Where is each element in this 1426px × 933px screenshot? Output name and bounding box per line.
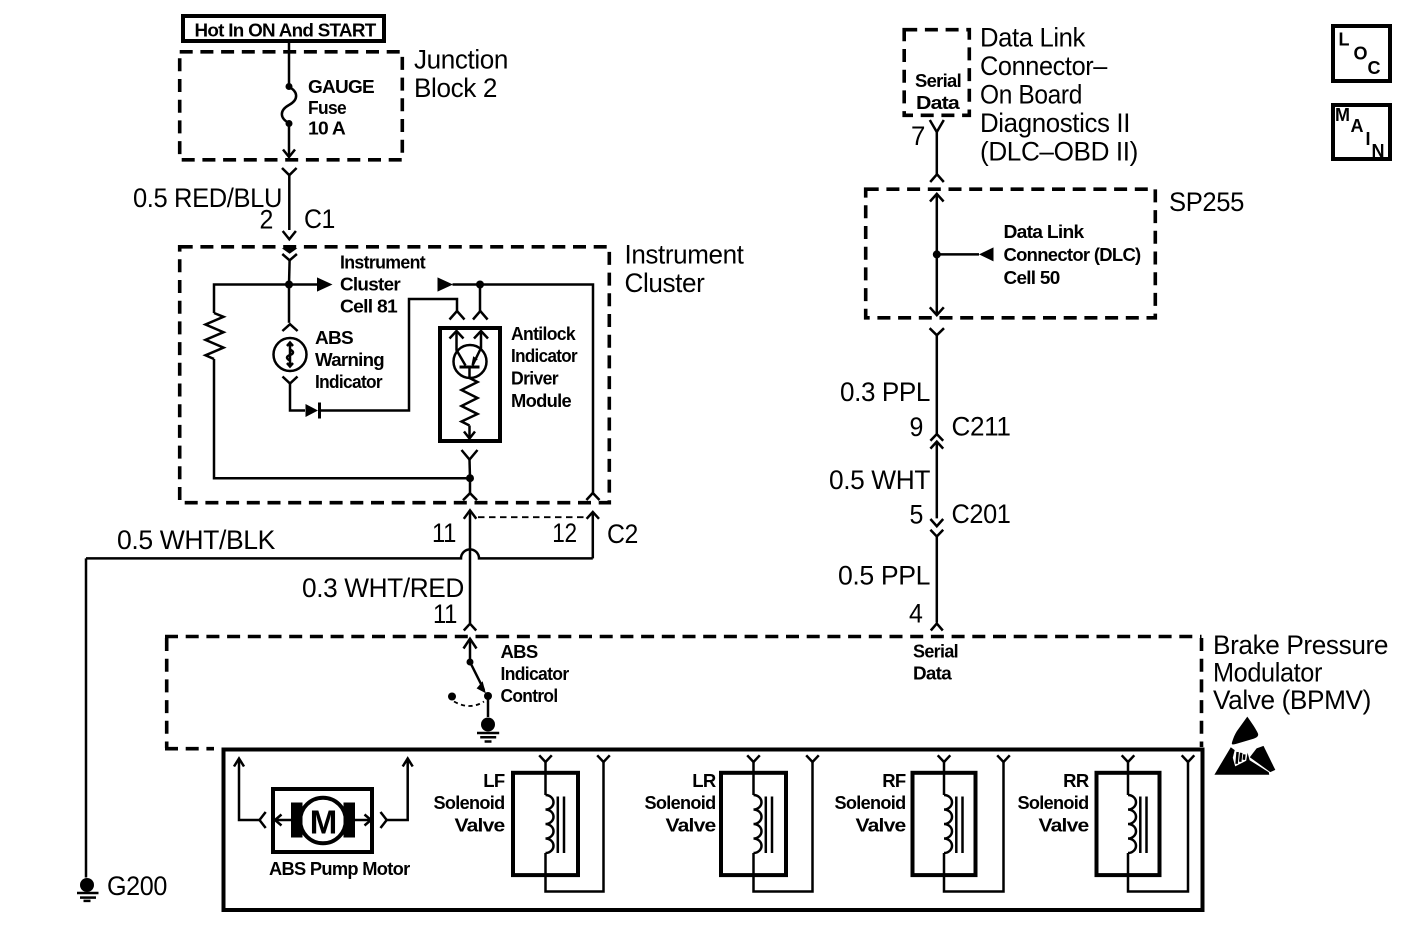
svg-text:Solenoid: Solenoid xyxy=(1018,792,1089,813)
wire C1 fork down to cluster (0.5 RED/BLU) xyxy=(283,175,296,239)
wire from hot box into junction block xyxy=(288,43,291,86)
svg-text:Control: Control xyxy=(501,685,558,706)
svg-text:Valve (BPMV): Valve (BPMV) xyxy=(1213,685,1371,715)
fork above BPMV pin xyxy=(464,624,476,631)
svg-text:RR: RR xyxy=(1063,770,1089,791)
svg-text:Valve: Valve xyxy=(666,815,716,836)
svg-text:Indicator: Indicator xyxy=(315,371,382,392)
svg-text:ABS: ABS xyxy=(315,327,353,348)
fork above SP255 xyxy=(930,174,944,182)
transistor Q1 xyxy=(454,345,487,378)
svg-text:N: N xyxy=(1372,141,1385,161)
label Instrument Cluster Cell 81 xyxy=(340,252,426,317)
label LF Solenoid Valve xyxy=(434,770,505,836)
solenoid valve LR xyxy=(721,755,819,891)
svg-text:Driver: Driver xyxy=(511,368,558,389)
fuse F GAUGE 10 A xyxy=(282,83,296,127)
svg-text:(DLC–OBD II): (DLC–OBD II) xyxy=(980,137,1138,167)
label ABS Indicator Control xyxy=(501,641,569,706)
off-page arrow to DLC Cell 50 xyxy=(937,247,994,261)
svg-text:Antilock: Antilock xyxy=(511,323,576,344)
svg-text:ABS: ABS xyxy=(501,641,538,662)
solenoid valve RF xyxy=(913,755,1010,891)
label Instrument Cluster xyxy=(625,240,745,299)
off-page arrow to Instrument Cluster Cell 81 (left) xyxy=(289,277,333,291)
module internal arrow 1 xyxy=(450,331,466,366)
wire diode to driver module input xyxy=(320,299,457,411)
label Antilock Indicator Driver Module xyxy=(511,323,577,411)
svg-text:Indicator: Indicator xyxy=(501,663,569,684)
connector C2 dashed link line xyxy=(478,516,586,518)
fork below module xyxy=(462,450,478,460)
svg-text:Warning: Warning xyxy=(315,349,384,370)
svg-text:LF: LF xyxy=(483,770,505,791)
svg-text:Cell 81: Cell 81 xyxy=(340,296,397,317)
svg-text:4: 4 xyxy=(909,599,923,629)
svg-text:Solenoid: Solenoid xyxy=(645,792,716,813)
wire node B to right rail xyxy=(480,285,593,493)
fuse value label GAUGE Fuse 10 A xyxy=(308,76,374,139)
wire node B down to module xyxy=(479,285,482,312)
BPMV entry arrow (pin 11 control) xyxy=(464,639,477,662)
node B junction dot xyxy=(476,281,484,289)
module internal arrow 2 xyxy=(473,331,489,366)
svg-text:0.5 WHT/BLK: 0.5 WHT/BLK xyxy=(117,525,275,555)
svg-text:Hot In ON And START: Hot In ON And START xyxy=(195,20,377,41)
fork pin 12 at cluster bottom xyxy=(586,493,599,500)
wire to shunt resistor branch xyxy=(214,285,289,314)
fork below SP255 xyxy=(930,328,944,335)
svg-text:Diagnostics II: Diagnostics II xyxy=(980,108,1130,138)
svg-text:Connector (DLC): Connector (DLC) xyxy=(1004,244,1142,265)
svg-text:M: M xyxy=(1335,105,1350,125)
svg-text:C201: C201 xyxy=(952,499,1011,529)
fork motor right xyxy=(381,812,387,828)
svg-text:Instrument: Instrument xyxy=(340,252,426,273)
junction block 2 dashed box xyxy=(180,52,403,160)
svg-text:Module: Module xyxy=(511,390,571,411)
wire node C to pin 11 fork xyxy=(469,478,472,493)
svg-text:2: 2 xyxy=(260,205,274,235)
svg-text:Cell 50: Cell 50 xyxy=(1004,267,1060,288)
wire left rail down to G200 xyxy=(85,558,88,877)
svg-text:Data: Data xyxy=(913,663,952,684)
svg-text:5: 5 xyxy=(910,500,924,530)
serial data source dashed box xyxy=(904,30,969,116)
arrow at SP255 bottom xyxy=(930,307,944,315)
fork motor left xyxy=(260,812,266,828)
svg-text:Connector–: Connector– xyxy=(980,51,1107,81)
svg-text:Serial: Serial xyxy=(915,70,961,91)
svg-text:Block 2: Block 2 xyxy=(414,73,497,103)
svg-text:C: C xyxy=(1368,58,1381,78)
serial data wire label (BPMV) xyxy=(913,641,958,684)
cluster entry fork at C1 xyxy=(282,254,297,260)
svg-text:C211: C211 xyxy=(952,412,1011,442)
brake pressure modulator valve BPMV dashed box xyxy=(165,637,1202,749)
label Junction Block 2 xyxy=(414,45,508,104)
svg-text:O: O xyxy=(1354,44,1368,64)
op-amp U1 Antilock Indicator Driver Module box xyxy=(440,328,500,441)
wire lamp to diode xyxy=(290,384,305,411)
diode D1 xyxy=(306,403,320,419)
node SP255 junction dot xyxy=(933,250,941,258)
fork below serial data box (pin 7) xyxy=(930,120,944,132)
switch SW ABS Indicator Control xyxy=(448,659,492,707)
splice SP255 dashed box xyxy=(866,189,1156,318)
wire into cluster xyxy=(288,260,291,284)
svg-text:A: A xyxy=(1351,116,1364,136)
svg-text:Valve: Valve xyxy=(455,815,505,836)
svg-text:7: 7 xyxy=(911,121,925,151)
svg-text:LR: LR xyxy=(692,770,716,791)
svg-text:On Board: On Board xyxy=(980,80,1082,110)
svg-text:12: 12 xyxy=(552,518,577,548)
arrow into SP255 xyxy=(930,194,944,202)
label LR Solenoid Valve xyxy=(645,770,716,836)
wire 0.5 PPL xyxy=(936,537,939,623)
fork at BPMV serial entry xyxy=(931,624,943,631)
lamp ABS Warning Indicator xyxy=(274,338,307,371)
lamp connector fork xyxy=(282,324,297,331)
solenoid valve RR xyxy=(1097,755,1195,891)
ground G200 xyxy=(77,878,99,901)
power source label box "Hot In ON And START" xyxy=(183,16,384,41)
label ABS Warning Indicator xyxy=(315,327,384,392)
svg-text:G200: G200 xyxy=(107,871,167,901)
module second input fork xyxy=(473,311,488,320)
svg-text:0.5 WHT: 0.5 WHT xyxy=(829,465,930,495)
pump feed arrow left xyxy=(234,759,259,821)
svg-text:L: L xyxy=(1339,30,1350,50)
svg-text:C2: C2 xyxy=(607,519,638,549)
ESD sensitive symbol xyxy=(1214,717,1275,775)
wire 0.3 PPL xyxy=(936,335,939,433)
svg-text:Data Link: Data Link xyxy=(1004,221,1085,242)
svg-text:Brake Pressure: Brake Pressure xyxy=(1213,630,1388,660)
module output arrow xyxy=(464,426,475,439)
wire resistor to bottom rail xyxy=(214,359,470,478)
fork below lamp xyxy=(283,377,298,384)
label Data Link Connector (DLC) Cell 50 xyxy=(1004,221,1142,288)
module input fork pin xyxy=(450,311,465,320)
solenoid valve LF xyxy=(513,755,610,891)
connector C2 pin 12 arrow xyxy=(587,512,599,558)
wire module output to node C xyxy=(468,460,471,479)
svg-text:SP255: SP255 xyxy=(1169,187,1244,217)
connector C211 fork and arrow xyxy=(930,434,943,449)
svg-text:Cluster: Cluster xyxy=(625,268,705,298)
svg-text:Data: Data xyxy=(916,92,961,113)
fork pin 11 at cluster bottom xyxy=(463,493,477,500)
svg-text:11: 11 xyxy=(432,518,456,548)
label Brake Pressure Modulator Valve (BPMV) xyxy=(1213,630,1388,715)
ground (BPMV switch) xyxy=(477,718,499,742)
connector C1 female fork below junction block xyxy=(282,168,297,175)
svg-text:GAUGE: GAUGE xyxy=(308,76,374,97)
wire 0.5 WHT xyxy=(936,442,939,519)
cluster entry connector cavity at C1 xyxy=(282,248,298,254)
svg-text:Serial: Serial xyxy=(913,641,958,662)
wire fuse to connector C1 (arrow down) xyxy=(283,124,295,157)
node C junction dot xyxy=(466,474,474,482)
wire pin 7 to SP255 xyxy=(936,132,939,174)
pump feed arrow right xyxy=(387,759,413,821)
svg-text:Solenoid: Solenoid xyxy=(835,792,906,813)
MAIN reference box xyxy=(1333,105,1390,161)
svg-text:C1: C1 xyxy=(304,204,335,234)
svg-text:Modulator: Modulator xyxy=(1213,658,1322,688)
label RF Solenoid Valve xyxy=(835,770,906,836)
instrument cluster dashed box xyxy=(180,247,610,503)
label RR Solenoid Valve xyxy=(1018,770,1089,836)
svg-text:Fuse: Fuse xyxy=(308,97,346,118)
svg-text:M: M xyxy=(310,804,338,841)
svg-text:Cluster: Cluster xyxy=(340,274,401,295)
svg-text:0.5 PPL: 0.5 PPL xyxy=(838,561,930,591)
wire lamp branch xyxy=(288,285,291,323)
node A junction dot xyxy=(285,281,293,289)
resistor R1 (cluster shunt) xyxy=(206,313,224,359)
svg-text:Junction: Junction xyxy=(414,45,508,75)
LOC reference box xyxy=(1333,26,1390,81)
svg-text:Instrument: Instrument xyxy=(625,240,745,270)
svg-text:Valve: Valve xyxy=(1039,815,1089,836)
svg-text:11: 11 xyxy=(433,599,457,629)
wire 0.5 WHT/BLK horizontal with hop over pin 11 wire xyxy=(86,549,593,558)
svg-text:Data Link: Data Link xyxy=(980,23,1086,53)
label Data Link Connector - On Board Diagnostics II xyxy=(980,23,1138,167)
wire serial data through SP255 xyxy=(936,194,939,315)
svg-text:Indicator: Indicator xyxy=(511,345,577,366)
off-page arrow from Cell 81 (right) xyxy=(438,277,481,291)
label Serial Data (source box) xyxy=(915,70,961,113)
svg-text:RF: RF xyxy=(882,770,906,791)
svg-text:Valve: Valve xyxy=(856,815,906,836)
connector C2 pin 11 arrow xyxy=(464,510,477,623)
BPMV inner solid box xyxy=(224,750,1203,911)
svg-text:10 A: 10 A xyxy=(308,118,345,139)
connector C201 arrow and fork xyxy=(930,519,943,537)
svg-text:ABS Pump Motor: ABS Pump Motor xyxy=(269,858,410,879)
resistor R2 (module) xyxy=(462,378,478,426)
wire switch to ground xyxy=(487,696,490,717)
svg-text:0.3 PPL: 0.3 PPL xyxy=(840,377,930,407)
svg-text:Solenoid: Solenoid xyxy=(434,792,505,813)
svg-text:9: 9 xyxy=(910,412,924,442)
svg-text:I: I xyxy=(1366,129,1371,149)
motor M1 ABS pump motor xyxy=(273,789,372,852)
